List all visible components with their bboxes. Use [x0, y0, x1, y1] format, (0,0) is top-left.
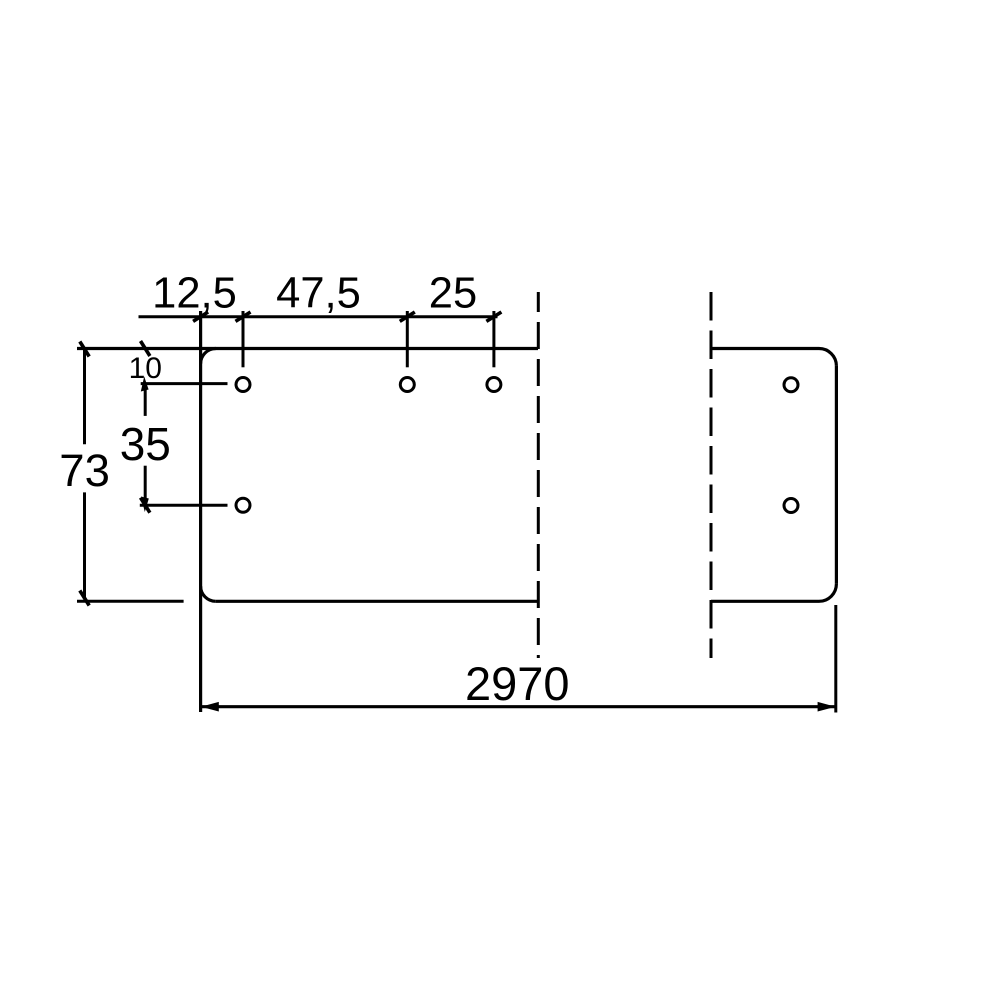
35 arrow down	[141, 497, 149, 513]
2970 arrow left	[201, 702, 219, 712]
hole A1	[236, 378, 250, 392]
35 dimension line lower segment	[144, 466, 147, 505]
svg-text:2970: 2970	[465, 657, 570, 710]
2970 dimension line	[201, 705, 836, 708]
left plate top-left corner fillet	[201, 349, 216, 364]
73 tick top	[80, 342, 89, 357]
svg-text:10: 10	[129, 352, 162, 385]
top dimension line	[139, 315, 498, 318]
35 dimension line upper segment	[144, 384, 147, 416]
svg-text:35: 35	[120, 418, 171, 470]
right plate top edge	[711, 347, 819, 350]
right plate bottom edge	[711, 600, 819, 603]
left plate bottom-left corner fillet	[201, 586, 216, 601]
hole row 1 leader line	[141, 382, 228, 385]
hole C1	[784, 378, 798, 392]
right plate break centerline (dashed)	[710, 292, 713, 658]
35 arrow up	[141, 377, 149, 392]
extension stub x=493.9	[492, 311, 495, 367]
hole A2	[400, 378, 414, 392]
73 dimension line lower segment	[83, 492, 86, 598]
73 dimension line upper segment	[83, 349, 86, 444]
hole row 2 leader line	[140, 504, 228, 507]
svg-text:12,5: 12,5	[152, 270, 237, 318]
left plate bottom edge	[216, 600, 538, 603]
svg-text:25: 25	[429, 270, 477, 318]
35 tick bottom	[141, 498, 150, 513]
2970 arrow right	[818, 702, 836, 712]
hole A3	[487, 378, 501, 392]
extension stub x=407.3	[406, 311, 409, 367]
tick at 493.9	[486, 312, 501, 321]
left plate top edge + 73 top extension line	[77, 347, 538, 350]
extension stub x=243	[242, 311, 245, 367]
svg-text:73: 73	[59, 445, 110, 496]
tick at 200.6	[193, 312, 208, 321]
right plate right edge	[835, 366, 838, 584]
tick at 407.3	[400, 312, 415, 321]
right plate bottom-right corner fillet	[819, 584, 836, 601]
2970 right extension line	[834, 605, 837, 713]
left plate break centerline (dashed)	[537, 292, 540, 658]
tick at 243	[236, 312, 251, 321]
73 tick bottom	[80, 591, 89, 606]
right plate top-right corner fillet	[819, 349, 836, 366]
73 bottom extension line	[77, 600, 184, 603]
hole B1	[236, 498, 250, 512]
hole C2	[784, 499, 798, 513]
left plate left edge + top/bottom extension line	[199, 311, 202, 712]
svg-text:47,5: 47,5	[276, 270, 361, 318]
10 tick at top edge	[141, 341, 150, 356]
